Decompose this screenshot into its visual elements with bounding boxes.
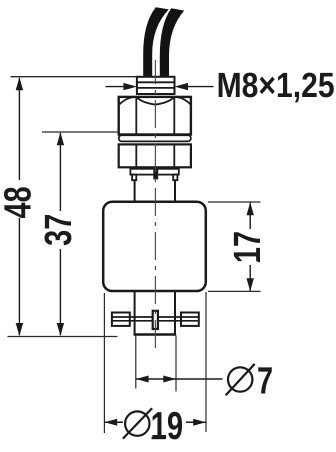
clip bar top line [112, 316, 199, 318]
text 19 [151, 405, 184, 448]
M8 leader left [106, 86, 126, 88]
clip block left [112, 313, 130, 326]
arrow diameter19 right [193, 419, 206, 426]
svg-text:37: 37 [38, 214, 80, 246]
float body [103, 202, 206, 291]
arrow diameter7 right [163, 376, 176, 383]
wire left [143, 7, 169, 82]
extension line bottom for 48 and 37 [8, 336, 118, 338]
extension line 17 bottom [208, 290, 261, 292]
hex nut upper body [119, 97, 191, 135]
M8 leader right [185, 86, 214, 88]
dim line 17 lower segment [249, 265, 251, 291]
clip center pin [153, 311, 158, 329]
thread body M8 [137, 77, 175, 94]
stem bottom cap [134, 333, 177, 335]
stem lower left edge [134, 291, 136, 335]
stem upper left edge [134, 180, 136, 202]
dim line 48 lower segment [18, 218, 20, 335]
hex nut facet line left [135, 97, 137, 134]
arrow 17 up [247, 202, 254, 215]
clip bar bottom line [112, 320, 199, 322]
dim line 48 upper segment [18, 78, 20, 180]
flange tab right [173, 175, 177, 181]
extension line diameter19 left [103, 293, 105, 433]
thread line 2 [138, 87, 175, 89]
svg-text:17: 17 [227, 231, 269, 263]
flange tab left [132, 175, 136, 181]
arrow diameter7 left [136, 376, 149, 383]
dim line 17 upper segment [249, 203, 251, 229]
wire right [160, 8, 184, 82]
dim line diameter19 right stub [186, 421, 206, 423]
dim line diameter19 left stub [104, 421, 123, 423]
hex nut facet line right [173, 97, 175, 134]
lock nut facet line right [173, 145, 175, 167]
flange plate [130, 169, 178, 175]
diameter symbol 19 slash [123, 408, 152, 438]
arrow 48 up [16, 77, 23, 90]
svg-text:19: 19 [151, 405, 184, 448]
extension line diameter7 left [135, 336, 137, 389]
thread line 1 [138, 81, 175, 83]
M8 arrow right [175, 83, 189, 90]
flange center slot [153, 169, 158, 180]
extension line 17 top [208, 201, 261, 203]
diameter symbol 7 circle [228, 367, 252, 391]
clip block right [181, 313, 199, 326]
extension line diameter19 right [205, 292, 207, 432]
svg-text:M8×1,25: M8×1,25 [217, 66, 335, 105]
hex nut chamfer arcs [119, 97, 190, 105]
extension line top for 48 [11, 76, 138, 78]
arrow diameter19 left [105, 419, 118, 426]
lock nut facet line left [135, 145, 137, 167]
extension line diameter7 right [175, 336, 177, 392]
arrow 17 down [247, 278, 254, 291]
diameter symbol 7 slash [226, 364, 255, 395]
dim line diameter7 [136, 378, 176, 380]
M8 arrow left [123, 83, 136, 90]
arrow 37 down [57, 323, 64, 336]
svg-text:7: 7 [257, 361, 273, 403]
dim line 37 lower segment [59, 249, 61, 335]
extension line for 37 [42, 131, 119, 133]
leader diameter7 [176, 378, 223, 380]
diameter symbol 19 circle [125, 411, 149, 435]
dim line 37 upper segment [59, 133, 61, 211]
text 17 [227, 231, 269, 263]
centerline [154, 60, 156, 351]
stem upper right edge [174, 180, 176, 202]
stem lower right edge [174, 291, 176, 335]
svg-text:48: 48 [0, 186, 40, 218]
lock nut body [119, 144, 191, 167]
text M8x1,25 [217, 66, 335, 105]
washer [119, 135, 191, 141]
arrow 48 down [16, 323, 23, 336]
arrow 37 up [57, 132, 64, 145]
